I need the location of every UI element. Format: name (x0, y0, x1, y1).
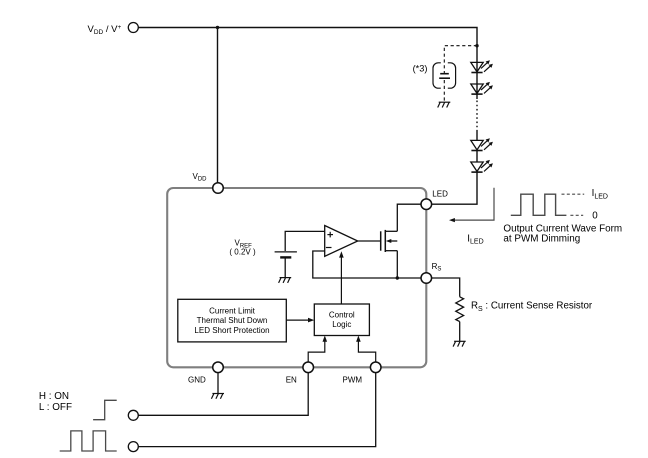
dashed level zero (570, 214, 583, 216)
wire GND pin to ground (217, 373, 219, 394)
ground (RS resistor) (453, 341, 466, 346)
junction dot LED string / bypass (475, 44, 478, 47)
wire Vref to op-amp + input (285, 231, 325, 251)
dashed level ILED high (562, 193, 585, 195)
pin RS (421, 273, 432, 284)
LED D3 (471, 138, 493, 150)
wire VDD vertical (217, 28, 219, 184)
svg-text:LED Short Protection: LED Short Protection (194, 326, 269, 335)
wire RS pin to resistor (432, 278, 460, 297)
LED D2 (471, 82, 493, 94)
svg-text:( 0.2V ): ( 0.2V ) (229, 247, 256, 256)
box control logic (314, 304, 369, 336)
wire+arrow EN to control logic (308, 336, 327, 363)
waveform PWM square (60, 431, 117, 451)
wire op-amp output to gate (358, 240, 381, 242)
box current limit / protection (178, 299, 286, 342)
ground (bypass capacitor) (438, 102, 451, 107)
wire feedback - input (313, 251, 398, 278)
wire LED string upper (476, 62, 478, 99)
wire sense node to RS pin (397, 277, 421, 279)
pin VDD (213, 183, 224, 194)
wire dotted LED string continuation (476, 101, 478, 132)
junction dot sense node (396, 276, 399, 279)
svg-text:GND: GND (188, 376, 206, 385)
ground (GND pin) (211, 394, 224, 399)
junction dot top rail (216, 26, 219, 29)
svg-text:ILED: ILED (592, 188, 608, 200)
waveform output current (511, 194, 567, 215)
svg-text:EN: EN (286, 376, 297, 385)
wire drain to LED pin (397, 204, 421, 231)
svg-text:LED: LED (432, 189, 448, 198)
wire dashed bypass branch (444, 46, 477, 73)
wire dashed capacitor to ground (443, 80, 445, 102)
wire top supply rail (138, 28, 477, 63)
wire resistor to ground (459, 322, 461, 341)
LED D1 (471, 60, 493, 72)
svg-text:RS: RS (432, 262, 442, 273)
wire source to sense node (396, 251, 398, 278)
pin LED (421, 199, 432, 210)
wire LED string to LED pin (432, 172, 477, 204)
pin GND (213, 362, 224, 373)
pin EN (303, 362, 314, 373)
capacitor C1 (*3) (433, 63, 456, 88)
transistor Q1 (NMOS) (381, 230, 398, 252)
svg-text:VDD / V+: VDD / V+ (88, 24, 122, 36)
wire LED string lower2 (476, 150, 478, 162)
svg-text:0: 0 (592, 210, 598, 221)
waveform EN step (93, 400, 117, 419)
op-amp U2 (325, 226, 358, 257)
terminal VDD/V+ (128, 23, 138, 33)
svg-text:RS : Current Sense Resistor: RS : Current Sense Resistor (471, 300, 593, 312)
wire EN input (138, 373, 308, 416)
arrow ILED current direction (449, 188, 494, 223)
terminal PWM (128, 442, 138, 452)
wire LED string lower (476, 131, 478, 140)
LED D4 (471, 160, 493, 172)
arrow protection to control logic (286, 318, 314, 323)
arrow control logic to op-amp (339, 251, 344, 304)
ground (Vref) (279, 278, 292, 283)
pin PWM (370, 362, 381, 373)
terminal EN (128, 410, 138, 420)
svg-text:Logic: Logic (332, 320, 351, 329)
wire PWM input (138, 373, 375, 447)
resistor RS (456, 297, 464, 322)
Vref battery source (275, 252, 297, 278)
svg-text:Current Limit: Current Limit (209, 307, 256, 316)
IC outline U1 (167, 188, 426, 367)
svg-text:L : OFF: L : OFF (39, 402, 72, 413)
svg-text:at PWM Dimming: at PWM Dimming (503, 234, 580, 245)
svg-text:H : ON: H : ON (39, 391, 69, 402)
svg-text:Control: Control (329, 310, 355, 319)
svg-text:ILED: ILED (467, 233, 483, 245)
svg-text:VDD: VDD (193, 172, 208, 183)
wire+arrow PWM to control logic (356, 336, 376, 363)
svg-text:(*3): (*3) (413, 64, 428, 74)
svg-text:Thermal Shut Down: Thermal Shut Down (197, 316, 268, 325)
svg-text:PWM: PWM (343, 376, 363, 385)
